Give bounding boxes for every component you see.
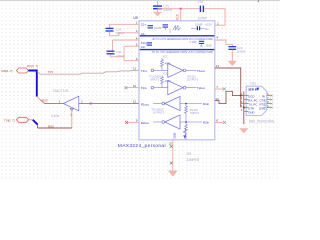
svg-text:T1out: T1out	[197, 69, 205, 73]
svg-text:RX5: RX5	[42, 98, 48, 102]
wire port to bus entry	[29, 119, 33, 121]
svg-text:INPUTS: INPUTS	[151, 79, 160, 82]
svg-text:100NF: 100NF	[237, 50, 246, 54]
svg-text:GND: GND	[173, 133, 177, 139]
svg-text:0.1MF: 0.1MF	[195, 22, 203, 26]
svg-text:RX5: RX5	[48, 124, 54, 128]
IC U9 MAX3224 body	[139, 21, 215, 140]
wire RX5 lower	[38, 127, 72, 129]
driver T1 triangle	[168, 63, 183, 77]
svg-text:VCC: VCC	[163, 55, 168, 58]
capacitor C29	[106, 24, 125, 35]
svg-text:C2-: C2-	[141, 45, 146, 49]
ground arrow below C24	[228, 50, 237, 66]
svg-text:R1out: R1out	[141, 102, 149, 106]
svg-text:0.1MF: 0.1MF	[154, 26, 162, 30]
bus entry to RX5 wire	[37, 97, 41, 100]
capacitor C21	[153, 4, 173, 12]
svg-text:R1in: R1in	[203, 102, 210, 106]
wire buffer enable	[71, 108, 73, 128]
wire C29 to pin 3	[110, 31, 140, 35]
driver T2 triangle	[168, 81, 183, 95]
wire buffer to pin 12	[79, 103, 139, 105]
wire pin4 to C24	[215, 40, 233, 46]
separator rule 1	[140, 35, 215, 37]
pin 6 V-	[124, 60, 139, 62]
connector left pin stubs	[240, 92, 249, 125]
internal shutdown arrow	[183, 129, 186, 139]
svg-text:-5.5V: -5.5V	[206, 44, 212, 48]
capacitor C20	[198, 0, 208, 20]
port RX[0..7]	[2, 68, 29, 73]
svg-text:R2in: R2in	[203, 120, 210, 124]
svg-text:R2out: R2out	[141, 121, 149, 125]
receiver R2 triangle	[165, 115, 180, 129]
node VCC junction	[180, 8, 182, 10]
jumper J19	[170, 145, 173, 148]
svg-text:14: 14	[216, 64, 220, 68]
svg-text:U9: U9	[133, 16, 137, 20]
svg-text:TX[0..7]: TX[0..7]	[4, 119, 15, 123]
wire R1in to connector	[215, 91, 244, 103]
svg-text:RX[0..7]: RX[0..7]	[2, 69, 13, 73]
svg-text:GND: GND	[248, 110, 254, 114]
pin 5 C2-	[124, 45, 139, 47]
svg-text:C1+: C1+	[141, 23, 147, 27]
wire VCC vertical into C21	[157, 1, 159, 6]
svg-text:T2in: T2in	[141, 86, 147, 90]
svg-text:RX[0..7]: RX[0..7]	[27, 64, 38, 68]
svg-text:11: 11	[133, 66, 136, 70]
bus RX	[29, 71, 37, 97]
svg-text:U10a: U10a	[51, 114, 59, 118]
svg-text:DB9_PERSONAL: DB9_PERSONAL	[249, 119, 275, 123]
internal VCC sawtooth row1	[170, 25, 181, 33]
svg-text:TX5: TX5	[48, 70, 54, 74]
wire C30 bottom to pins 5 and 6	[111, 54, 125, 57]
internal cap row1 right	[191, 22, 205, 30]
wire pin15 to jumper and ground	[172, 140, 174, 171]
wire TX5	[40, 70, 139, 74]
receiver R1 triangle	[165, 96, 180, 110]
no-connect x pin 10	[124, 86, 127, 89]
svg-text:MAX3224_personal: MAX3224_personal	[118, 143, 166, 149]
ground arrow below connector	[239, 128, 248, 133]
svg-text:15: 15	[169, 142, 173, 146]
sheet top border	[0, 0, 280, 2]
svg-text:OUTPUTS: OUTPUTS	[153, 112, 165, 115]
resistor 400K upper	[161, 55, 171, 70]
wire VCC to pin 16	[180, 9, 182, 21]
bus entry to TX5 wire	[37, 72, 40, 75]
wire RX5 to buffer output	[40, 100, 63, 104]
svg-text:JUMPER: JUMPER	[186, 158, 200, 162]
internal cap row1 left	[148, 25, 169, 30]
resistor 400K lower	[161, 73, 171, 88]
svg-text:D+: D+	[205, 27, 209, 31]
internal cap row2 right	[190, 40, 205, 46]
svg-text:12: 12	[133, 100, 137, 104]
capacitor C24	[229, 46, 246, 54]
buffer U10a 74ACT125	[51, 89, 83, 118]
connector U11 DB9	[246, 81, 275, 123]
svg-text:+5.5V: +5.5V	[205, 22, 212, 26]
ground arrow bottom	[168, 171, 178, 177]
internal resistor chain R1	[185, 103, 187, 105]
internal resistor chain R2	[185, 121, 187, 123]
wire C20 to pin 2	[204, 9, 225, 26]
connector right pin stubs	[267, 94, 273, 109]
svg-text:T2out: T2out	[197, 86, 205, 90]
separator rule 2	[140, 49, 215, 51]
ground arrow below C21	[153, 9, 162, 16]
bus entry TX	[33, 120, 38, 125]
internal cap row2 left small	[147, 43, 153, 45]
svg-text:VCC: VCC	[163, 73, 168, 76]
capacitor C30	[107, 40, 125, 58]
svg-text:SER IN: SER IN	[248, 87, 257, 91]
svg-text:INPUTS: INPUTS	[190, 112, 199, 115]
svg-text:+5V TO +5.5V GENERATED FROM VC: +5V TO +5.5V GENERATED FROM VCC (CHARGE …	[152, 38, 214, 41]
svg-text:C20: C20	[198, 0, 204, 4]
svg-text:0.1MF: 0.1MF	[190, 40, 198, 44]
wire VCC rail	[158, 8, 200, 10]
svg-text:74ACT125: 74ACT125	[53, 89, 69, 93]
svg-text:VCC: VCC	[176, 13, 180, 21]
port TX[0..7]	[4, 117, 29, 122]
svg-text:OUTPUTS: OUTPUTS	[187, 79, 199, 82]
svg-text:U11: U11	[251, 81, 257, 85]
svg-text:100NF: 100NF	[198, 16, 208, 20]
node junction buffer output	[90, 103, 92, 105]
svg-text:-5V TO -5.5V GENERATED FROM +5: -5V TO -5.5V GENERATED FROM +5.5V (CHARG…	[152, 51, 214, 54]
svg-text:J19: J19	[186, 152, 191, 156]
svg-text:T1in: T1in	[141, 69, 147, 73]
wire T1out to connector	[215, 68, 241, 108]
svg-text:VCC: VCC	[170, 28, 172, 33]
